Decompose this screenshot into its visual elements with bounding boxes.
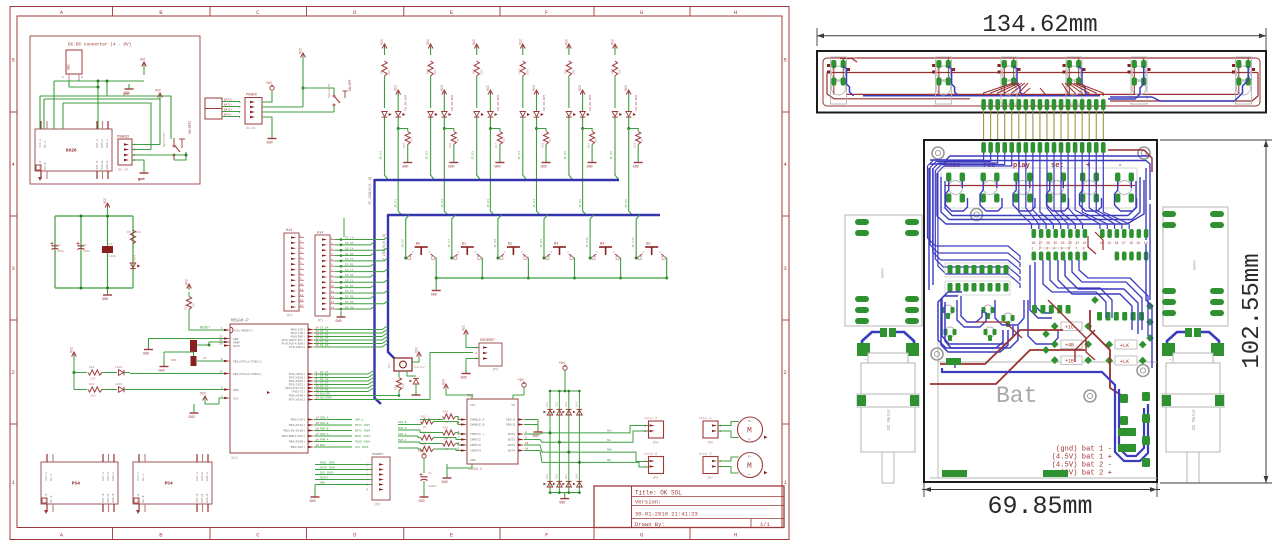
svg-text:BAT1-: BAT1- [224,114,233,117]
svg-text:134.62mm: 134.62mm [982,12,1097,39]
IR sensor footprint S3 on bar [998,57,1021,104]
svg-text:OUT+B: OUT+B [201,494,204,503]
svg-text:SEN_A: SEN_A [506,419,515,422]
IR sensor column R12/LED4 [518,39,552,215]
svg-text:(gnd) bat 1 -: (gnd) bat 1 - [1056,446,1112,454]
button footprint B1 [981,173,1000,203]
IR sensor footprint S5 on bar [1128,57,1151,104]
capacitor C1 1000u [420,472,438,488]
svg-text:IR_D0: IR_D0 [345,301,354,304]
svg-text:JP_D2: JP_D2 [441,199,444,208]
svg-text:R24: R24 [443,411,448,414]
svg-text:GB99: GB99 [882,268,886,278]
svg-text:PD7(AIN1): PD7(AIN1) [289,398,305,402]
svg-text:12: 12 [331,296,335,299]
svg-text:OUT-A: OUT-A [96,139,99,148]
wire [423,481,425,492]
svg-text:M: M [747,427,752,436]
resistor R23 100 [395,378,406,391]
svg-text:IR_C0: IR_C0 [345,237,354,240]
svg-text:4: 4 [1053,247,1055,251]
svg-text:3: 3 [1046,247,1048,251]
connector JP6 motor A [644,417,663,445]
ground [123,84,134,96]
board header pads 18x [981,142,1105,153]
svg-text:VCC: VCC [416,347,420,353]
wire OUT3 NB+ [524,445,649,462]
svg-text:GND-A: GND-A [106,139,109,148]
wire PD to LEDs [130,373,224,375]
svg-text:VCC-A: VCC-A [137,472,140,481]
svg-text:2: 2 [1039,247,1041,251]
svg-text:100n: 100n [109,255,116,258]
trace blue drop [1014,66,1024,96]
svg-text:8M: 8M [203,357,207,360]
svg-text:R20: R20 [185,305,188,310]
svg-text:220: 220 [90,378,96,381]
mount hole [1137,365,1149,377]
svg-text:header: header [372,452,384,456]
connector JP5 motor B [644,453,663,481]
svg-text:3: 3 [784,265,787,272]
svg-text:VCC: VCC [155,90,161,94]
svg-text:OUT-A: OUT-A [102,472,105,481]
svg-text:DIR-A: DIR-A [320,433,329,436]
svg-text:DIR-A: DIR-A [398,433,407,436]
svg-text:PS4: PS4 [72,481,80,487]
wires header JP1 to bus [335,237,388,311]
svg-text:U$1: U$1 [67,64,71,70]
svg-text:GND-B: GND-B [206,494,209,503]
transistor Q2 [407,371,421,395]
svg-text:PWM-A: PWM-A [398,439,407,442]
svg-text:OUT+A: OUT+A [201,472,204,481]
svg-text:OUT+A: OUT+A [107,472,110,481]
svg-text:R14: R14 [611,68,614,74]
label minus [1118,162,1122,170]
svg-text:JP_D2: JP_D2 [426,151,429,160]
dimension 102.55mm [1160,140,1272,483]
resistor R22 with LED3 [88,383,130,398]
wire [718,457,739,461]
pushbutton B1 [448,215,484,482]
trace blue drop [1108,66,1144,99]
svg-text:1M: 1M [193,303,196,307]
svg-text:dc-in: dc-in [118,168,128,173]
supply +5V [139,59,146,76]
label Bat [996,383,1037,409]
svg-text:dc-in: dc-in [246,126,256,130]
svg-text:D11: D11 [546,402,549,407]
svg-text:LED3: LED3 [115,383,122,386]
svg-text:10: 10 [331,285,335,288]
svg-text:IND-A: IND-A [320,417,329,420]
ground [524,420,543,440]
svg-text:15: 15 [1137,241,1141,245]
svg-text:IR_IN-OUT: IR_IN-OUT [451,95,454,111]
resistor R29 1K [421,443,434,457]
svg-text:M+: M+ [748,456,752,459]
trace red [930,350,1085,384]
svg-text:R23: R23 [395,385,398,390]
svg-text:GND: GND [310,500,316,504]
resistor R25 1K [421,416,434,430]
wire [466,359,479,369]
connector battery stubs BAT1/BAT2 [205,98,240,119]
resistor R27 1K [421,432,434,446]
svg-text:INPUT3: INPUT3 [470,444,481,447]
svg-text:2: 2 [784,369,787,376]
IR sensor column R9/LED1 [380,39,414,215]
svg-text:BOAT INP1: BOAT INP1 [355,435,370,438]
svg-text:330: 330 [573,69,576,75]
cap footprint +LK [1105,340,1146,349]
svg-text:H: H [734,9,737,16]
svg-text:JP_D6: JP_D6 [610,151,613,160]
label plus [1086,162,1090,170]
svg-text:R13: R13 [565,68,568,74]
svg-text:R26: R26 [443,427,448,430]
svg-text:R20: R20 [634,143,637,148]
svg-text:R17: R17 [495,143,498,148]
svg-text:JP_D4: JP_D4 [533,199,536,208]
svg-text:IR_C1: IR_C1 [345,280,354,283]
svg-text:JP6: JP6 [653,441,659,445]
diode D14 [573,402,582,415]
svg-text:PD2(INT0): PD2(INT0) [289,379,305,383]
IR sensor footprint S6 on bar [1232,57,1255,104]
svg-text:OUT3: OUT3 [508,444,515,447]
svg-text:VCC: VCC [519,39,523,45]
traces blue transistor zone [938,262,1058,352]
supply VCC [200,393,224,405]
svg-text:VCC: VCC [200,393,206,397]
wires in DC-DC converter [40,80,188,169]
svg-text:2K: 2K [549,138,552,142]
svg-text:1: 1 [1032,247,1034,251]
trace red low [846,93,1238,95]
wires capacitor bank [55,215,133,290]
svg-text:28: 28 [1032,241,1036,245]
regulator U$1 [62,50,83,80]
svg-text:JP_D6: JP_D6 [625,199,628,208]
svg-text:PD3(INT1): PD3(INT1) [289,383,305,387]
svg-text:69.85mm: 69.85mm [987,492,1092,521]
svg-text:VCC: VCC [533,85,537,91]
svg-text:NC-A: NC-A [50,473,53,480]
svg-text:VCC: VCC [443,379,447,385]
wire RESET [189,292,224,331]
svg-text:MOSI INP2: MOSI INP2 [320,462,335,465]
supply VCC [104,198,110,216]
svg-text:30-01-2016 21:41:23: 30-01-2016 21:41:23 [635,511,698,518]
pushbutton B0 [402,215,437,482]
trace red mid [975,322,1022,338]
trace red button row [945,185,1135,187]
svg-text:PB2(SS/OC1B): PB2(SS/OC1B) [283,429,305,433]
module PS4 #1 [41,454,118,514]
svg-text:R9: R9 [380,70,383,74]
svg-text:IR_C3: IR_C3 [345,258,354,261]
resistor R21 with LED2 [88,366,130,381]
button footprint B3 [1047,173,1066,203]
traces blue button zone [929,156,1150,300]
resistor R20 1M [185,297,196,311]
svg-text:VS: VS [511,404,515,407]
ground [102,288,112,302]
wire BUZZER [314,393,399,396]
supply VCC [443,379,473,399]
svg-text:NC-B: NC-B [142,495,145,502]
svg-text:PD6(AIN0): PD6(AIN0) [289,394,305,398]
diode D17 [562,474,571,487]
svg-text:220: 220 [136,231,142,234]
svg-text:PWM-B: PWM-B [398,427,407,430]
svg-text:OUT+B: OUT+B [101,161,104,170]
mount hole [1138,147,1150,159]
svg-text:11: 11 [331,290,335,293]
svg-text:IR_R6: IR_R6 [320,344,329,347]
pushbutton B3 [540,215,576,482]
svg-text:OUT4: OUT4 [508,450,515,453]
svg-text:OUT-B: OUT-B [102,494,105,503]
svg-text:G: G [640,532,643,539]
svg-text:-: - [1213,359,1215,363]
svg-text:GND: GND [461,377,467,381]
svg-text:14: 14 [300,304,304,307]
svg-text:1000u: 1000u [428,485,437,488]
svg-text:JP9: JP9 [374,503,380,507]
svg-text:F: F [545,532,548,539]
svg-text:GND: GND [587,166,593,170]
resistor R5 220 [127,230,141,244]
bus JP_LED (upper) [368,176,619,404]
ground [138,168,149,182]
motor driver IC2 L298N [456,395,528,473]
ground [419,492,429,504]
module PS4 #2 [133,454,212,514]
supply +9V [266,82,275,90]
svg-text:+LK: +LK [1120,359,1129,365]
svg-text:IR_IN-OUT: IR_IN-OUT [405,95,408,111]
svg-text:BUZZER: BUZZER [320,393,330,396]
IR sensor column R13/LED5 [564,39,598,215]
mount hole [932,147,944,159]
supply VCC [300,48,306,107]
capacitor C3 100u [51,242,65,253]
supply VCC [155,90,162,100]
svg-text:11: 11 [300,288,304,291]
svg-text:PD5(T1): PD5(T1) [292,390,305,394]
svg-text:PWM-B: PWM-B [320,428,329,431]
svg-text:1K: 1K [423,426,427,429]
svg-text:H14: H14 [286,229,292,233]
svg-text:GND: GND [267,142,273,146]
wires MCU port C/D to bus (lower) [314,370,375,392]
svg-text:IR_R2: IR_R2 [345,274,354,277]
trace blue drop [1079,66,1089,96]
svg-text:8: 8 [1083,247,1085,251]
trace red top right [1108,150,1152,172]
crystal Q1 with caps C2/C5 [149,339,225,367]
wire [718,467,739,474]
svg-text:IR_IN-OUT: IR_IN-OUT [543,95,546,111]
label rec [983,162,996,170]
svg-text:IR_IN-OUT: IR_IN-OUT [589,95,592,111]
pads mid right [1032,305,1144,321]
resistor R28 1K [443,438,456,452]
button footprint B2 [1014,173,1033,203]
svg-text:H14: H14 [317,232,323,236]
wire DECODER [314,353,473,400]
svg-text:IR_R8: IR_R8 [320,389,329,392]
svg-text:JP5: JP5 [653,476,659,480]
dimension 134.62mm [817,12,1266,50]
svg-text:NC-B: NC-B [50,495,53,502]
cap footprint +1E [1051,356,1092,365]
svg-text:1/1: 1/1 [760,521,771,528]
svg-text:5: 5 [1061,247,1063,251]
diode D16 [553,474,562,487]
svg-text:PB1(OC1A): PB1(OC1A) [289,423,305,427]
label bat wiring [1052,446,1112,478]
header encoder JP4 [475,338,502,372]
IR sensor footprint S4 on bar [1063,57,1086,104]
svg-text:18: 18 [1115,241,1119,245]
svg-text:INPUT2: INPUT2 [470,439,481,442]
svg-text:-: - [1118,162,1122,170]
ground [442,464,473,485]
pad strip [942,358,1068,477]
svg-text:13: 13 [300,299,304,302]
svg-text:ENCODER*: ENCODER* [480,338,495,342]
svg-text:VCC: VCC [186,279,190,285]
svg-text:GND: GND [541,166,547,170]
svg-text:2K: 2K [457,138,460,142]
svg-text:JP4: JP4 [492,368,498,372]
svg-text:NA+: NA+ [607,429,613,432]
svg-text:GND: GND [102,298,108,302]
resistor R26 1K [443,427,456,441]
svg-text:JP_D10: JP_D10 [586,237,589,248]
motor B M2 [738,453,768,478]
svg-text:PC0(ADC0): PC0(ADC0) [289,372,305,376]
supply +9V [418,450,427,473]
svg-text:B1: B1 [462,243,466,247]
svg-text:2: 2 [12,369,15,376]
svg-text:-: - [908,359,910,363]
svg-text:22: 22 [1075,241,1079,245]
svg-text:DIR-B: DIR-B [398,421,407,424]
bus JP_LED (lower) [382,215,660,358]
svg-text:M-: M- [748,438,752,441]
svg-text:JP_D4: JP_D4 [518,151,521,160]
svg-text:+9U: +9U [266,82,272,86]
svg-text:JP_D8: JP_D8 [494,239,497,248]
svg-text:7: 7 [1075,247,1077,251]
svg-text:VCC: VCC [612,39,616,45]
svg-text:VCC: VCC [381,39,385,45]
svg-text:PD0(RXD): PD0(RXD) [291,335,306,339]
svg-text:VCC: VCC [300,48,304,54]
svg-text:motor B: motor B [699,453,712,456]
diode D12 [553,402,562,415]
svg-text:PD1(TXD): PD1(TXD) [291,331,306,335]
svg-text:C1: C1 [428,472,432,475]
svg-text:GB99: GB99 [1194,260,1198,270]
svg-text:25: 25 [1053,241,1057,245]
transistor footprints [942,305,1015,341]
resistor R24 1K [443,411,456,425]
svg-text:D15: D15 [546,474,549,479]
svg-text:LED4: LED4 [134,255,137,262]
wire [718,422,739,426]
svg-text:INPUT1 +: INPUT1 + [470,433,485,436]
svg-text:RESET: RESET [200,327,210,331]
svg-text:VCC-A: VCC-A [45,472,48,481]
svg-text:D12: D12 [555,402,558,407]
connector JP7 motor B [699,453,722,481]
svg-text:NB-: NB- [607,459,613,462]
svg-text:26: 26 [1046,241,1050,245]
svg-text:set: set [1051,162,1064,170]
trace red fan [984,83,1104,96]
wire [718,431,739,438]
trace red [1090,310,1126,398]
DC-DC module IC 9926 [35,121,112,181]
svg-text:IR_C4: IR_C4 [345,247,354,250]
svg-text:B2: B2 [508,243,512,247]
title block [594,486,784,528]
svg-text:R11: R11 [473,68,476,74]
wire OUT4 NB- [524,451,649,468]
svg-text:VCC: VCC [427,39,431,45]
LED4 [130,255,140,269]
svg-text:IR_C0: IR_C0 [345,290,354,293]
svg-text:JP7: JP7 [707,476,713,480]
IR sensor column R11/LED3 [472,39,506,215]
svg-text:IR_R1: IR_R1 [345,285,354,288]
ground [159,360,169,374]
svg-text:OUT-A: OUT-A [196,472,199,481]
svg-text:2K: 2K [641,138,644,142]
wire OUT2 NA- [524,431,649,444]
svg-text:GND: GND [336,320,342,324]
via pads [1042,296,1154,354]
svg-text:R21: R21 [89,366,95,369]
svg-text:PD7(AIN1): PD7(AIN1) [289,376,305,380]
svg-text:IR_IN-OUT: IR_IN-OUT [497,95,500,111]
svg-text:SP1: SP1 [388,363,391,368]
svg-text:motor B: motor B [645,453,658,456]
svg-text:VCC: VCC [441,85,445,91]
wires MCU SPI/PWM [314,417,370,449]
svg-text:13: 13 [331,301,335,304]
svg-text:VCC: VCC [625,85,629,91]
svg-text:GND: GND [448,166,454,170]
svg-text:play: play [1013,162,1031,170]
svg-text:JP_D3: JP_D3 [487,199,490,208]
svg-text:DC Motor: DC Motor [886,408,892,430]
svg-text:GND: GND [533,435,539,439]
svg-text:L298N-H: L298N-H [468,468,482,472]
svg-text:IR_IN-OUT: IR_IN-OUT [635,95,638,111]
IR sensor column R14/LED6 [610,39,644,215]
IC socket pads [1032,229,1149,261]
svg-text:OUT1: OUT1 [508,433,515,436]
svg-text:JP_D7: JP_D7 [448,239,451,248]
pushbutton B5 [632,215,668,482]
